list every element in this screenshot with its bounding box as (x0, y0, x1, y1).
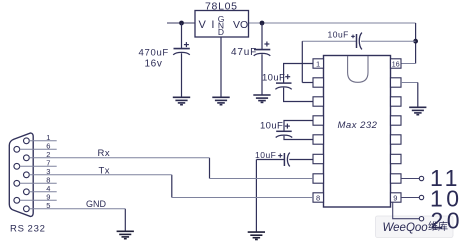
svg-text:9: 9 (393, 194, 397, 203)
wire: pin8 long line (172, 197, 313, 199)
svg-text:10uF: 10uF (260, 120, 283, 131)
connector J1 DB9 shell (9, 133, 33, 217)
DB9 pin circle 1 (24, 138, 30, 144)
svg-text:470uF: 470uF (139, 48, 169, 59)
wire: pin7 long line (210, 178, 314, 180)
wire: DB9 pin4 stub (29, 191, 57, 193)
svg-text:Max 232: Max 232 (338, 120, 378, 131)
DB9 pin circle 6 (14, 146, 20, 152)
svg-text:VI: VI (199, 19, 220, 31)
pin 15 box (391, 78, 402, 87)
pin 6 box (313, 154, 324, 163)
DB9 pin circle 5 (24, 206, 30, 212)
wire: DB9 pin1 stub (29, 140, 57, 142)
wire: DB9 pin5 GND line (29, 208, 125, 210)
wire: pin1 stub (284, 64, 313, 83)
pin 1 box (313, 59, 324, 68)
svg-text:8: 8 (316, 194, 320, 203)
svg-text:D: D (218, 27, 224, 37)
capacitor C1 10uF (pin1 to pin3) (275, 74, 291, 89)
wire: +V rail from VO to top-right corner (249, 22, 416, 24)
pin 16 box (391, 59, 402, 68)
wire: DC input stub (167, 22, 195, 24)
pin 4 box (313, 116, 324, 125)
wire: DB9 pin6 stub (20, 148, 57, 150)
ground: DB9 GND (117, 231, 134, 238)
ground: under 47uF (253, 95, 270, 102)
terminal circle 20 (419, 217, 423, 221)
wire: Rx run to pin7 (209, 158, 211, 179)
svg-text:5: 5 (46, 201, 50, 210)
capacitor C4 10uF (pin6 to GND) (256, 153, 313, 167)
DB9 pin circle 4 (24, 189, 30, 195)
DB9 pin circle 7 (14, 163, 20, 169)
pin 3 box (313, 97, 324, 106)
wire: bottom tap to terminal 20 (393, 202, 420, 219)
wire: pin15 ground drop (417, 83, 419, 108)
terminal circle 11 (419, 176, 423, 180)
IC notch (348, 56, 368, 82)
DB9 pin circle 9 (14, 197, 20, 203)
svg-text:RS: RS (10, 224, 25, 235)
watermark WeeQoo chip (376, 216, 454, 238)
wire: pin16 stub (401, 63, 416, 65)
wire: C4 ground drop (255, 160, 257, 232)
svg-text:20: 20 (431, 208, 460, 234)
wire: vertical riser to pin16 (415, 23, 417, 64)
svg-text:WeeQoo: WeeQoo (383, 222, 429, 234)
svg-text:1: 1 (316, 60, 320, 69)
svg-text:10uF: 10uF (328, 30, 349, 40)
regulator U2 78L05 box (195, 11, 249, 38)
ground: below C4 (248, 232, 265, 239)
svg-text:Tx: Tx (99, 165, 111, 176)
svg-text:10uF: 10uF (255, 150, 276, 160)
pin 10 box (391, 174, 402, 183)
wire: pin4 stub (284, 121, 313, 131)
wire: C3 left riser to pin2 (301, 41, 303, 82)
node: junction at 470uF tap (179, 21, 184, 26)
capacitor C3 10uF (pin2 to VCC) (302, 33, 415, 50)
wire: pin2 stub (302, 82, 313, 84)
wire: Tx drop (171, 175, 173, 198)
svg-text:47uF: 47uF (231, 47, 257, 58)
pin 14 box (391, 97, 402, 106)
wire: DB9 pin8 stub (20, 182, 57, 184)
wire: pin10 stub to terminal (401, 178, 419, 180)
wire: DB9 pin7 stub (20, 165, 57, 167)
wire: C1 bottom lead to pin3 (284, 88, 313, 102)
DB9 pin circle 3 (24, 172, 30, 178)
svg-text:78L05: 78L05 (205, 1, 238, 13)
pin 2 box (313, 78, 324, 87)
svg-text:GND: GND (86, 199, 107, 209)
pin 12 box (391, 135, 402, 144)
svg-text:Rx: Rx (98, 148, 111, 159)
wire: pin15 stub (401, 82, 418, 84)
capacitor C2 10uF (pin4 to pin5) (276, 124, 293, 138)
pin 11 box (391, 154, 402, 163)
wire: DB9 pin9 stub (20, 199, 57, 201)
pin 7 box (313, 174, 324, 183)
ground: under regulator (212, 97, 229, 104)
svg-text:VO: VO (233, 19, 248, 31)
wire: regulator GND lead (220, 37, 222, 97)
ground: under 470uF (173, 97, 190, 104)
svg-text:232: 232 (28, 224, 46, 235)
capacitor C6 47uF (254, 23, 271, 95)
capacitor C5 470uF (173, 23, 190, 97)
pin 8 box (313, 193, 324, 202)
pin 5 box (313, 135, 324, 144)
pin 9 box (391, 193, 402, 202)
wire: GND drop from DB9 pin5 (124, 209, 126, 231)
svg-text:16v: 16v (145, 59, 163, 70)
wire: pin9 stub to terminal (401, 197, 419, 199)
DB9 pin circle 2 (24, 155, 30, 161)
ground: at pin15 (409, 107, 426, 114)
node: junction C3 to VCC (413, 39, 418, 44)
pin name GND (stacked) (218, 14, 225, 37)
svg-text:10uF: 10uF (262, 73, 285, 84)
wire: DB9 pin3 Tx line (29, 174, 172, 176)
op-amp U1 Max232 body (324, 56, 391, 208)
wire: C2 bottom lead to pin5 (284, 136, 313, 140)
svg-text:16: 16 (392, 61, 400, 68)
pin 13 box (391, 116, 402, 125)
terminal circle 10 (419, 195, 423, 199)
wire: DB9 pin2 Rx line (29, 157, 209, 159)
node: junction at 47uF tap (260, 21, 265, 26)
value label 470uF 16v (139, 48, 169, 70)
DB9 pin circle 8 (14, 180, 20, 186)
